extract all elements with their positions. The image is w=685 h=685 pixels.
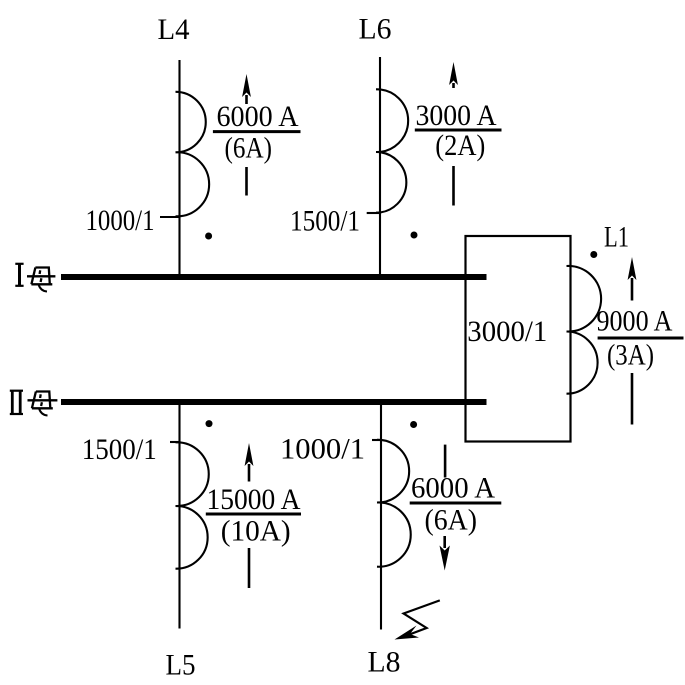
polarity dot L1 [590,251,597,258]
underline 15000A (L5) [206,513,301,516]
current arrow L6 (up) [449,62,458,206]
svg-text:(6A): (6A) [225,132,273,165]
svg-text:1000/1: 1000/1 [86,204,155,237]
svg-text:(6A): (6A) [425,504,478,537]
svg-text:1000/1: 1000/1 [280,433,365,466]
tick from 1000/1 label to CT L8 [372,439,382,441]
svg-text:L5: L5 [166,649,196,682]
CT on bus tie feeder L1 (two half-turns) [567,266,602,394]
wire L5 [178,402,180,629]
CT on L5 (two half-turns) [176,442,209,568]
CT on L8 (two half-turns) [377,440,411,567]
svg-text:9000 A: 9000 A [597,305,673,338]
tick from 1500/1 label to CT L5 [170,441,180,443]
wire L8 [380,402,382,630]
wire L4 [178,60,180,277]
svg-text:15000 A: 15000 A [207,483,301,516]
tick from 1000/1 label to CT L4 [160,216,180,218]
svg-text:3000 A: 3000 A [416,99,497,132]
underline 9000A (L1) [598,337,684,340]
tick from 1500/1 label to CT L6 [367,212,381,214]
svg-text:3000/1: 3000/1 [467,315,547,348]
bus I bar [61,274,487,280]
underline 3000A (L6) [415,129,502,132]
bus II label roman numeral II [10,391,23,414]
polarity dot L6 [411,232,418,239]
svg-text:L4: L4 [158,13,190,46]
bus tie rectangle [466,236,571,442]
fault lightning symbol on L8 [395,600,440,639]
wire L6 [379,57,381,277]
polarity dot L8 [410,421,417,428]
underline 6000A (L4) [213,130,301,133]
CT on L6 (two half-turns) [376,89,408,212]
bus I label roman numeral I [15,264,23,286]
svg-text:(3A): (3A) [607,339,654,372]
underline 6000A (L8) [410,502,502,505]
svg-text:(2A): (2A) [435,129,485,162]
polarity dot L5 [206,420,213,427]
bus II bar [61,399,487,405]
current arrow L5 (up) [245,443,254,588]
svg-text:(10A): (10A) [221,515,291,548]
svg-text:6000 A: 6000 A [217,100,299,133]
polarity dot L4 [205,233,212,240]
current arrow L8 (down) [440,445,450,571]
bus I label CJK mu (hand-drawn) [27,268,55,292]
current arrow L4 (up) [242,74,251,196]
bus II label CJK mu (hand-drawn) [28,392,58,416]
svg-text:L6: L6 [359,13,392,46]
svg-text:L8: L8 [368,646,401,679]
svg-text:6000 A: 6000 A [411,472,495,505]
svg-text:L1: L1 [604,220,629,253]
current arrow L1 (up) [628,257,637,425]
CT on L4 (two half-turns) [176,92,210,217]
svg-text:1500/1: 1500/1 [290,205,360,238]
svg-text:1500/1: 1500/1 [82,433,157,466]
